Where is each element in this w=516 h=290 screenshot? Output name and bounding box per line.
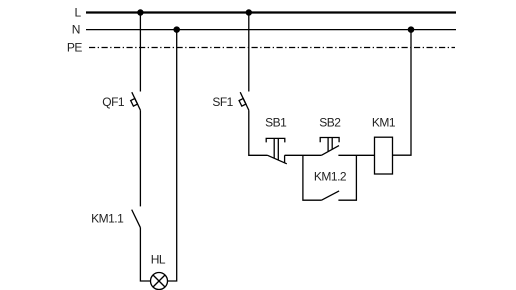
junction dot on L at SF1 branch xyxy=(246,10,251,15)
contact KM1.2 (NO) xyxy=(322,191,340,200)
bus wire L xyxy=(86,11,456,13)
svg-text:KM1.1: KM1.1 xyxy=(91,212,124,226)
wire HL up to N xyxy=(168,30,177,281)
wire L down to SF1 xyxy=(248,13,250,92)
svg-text:HL: HL xyxy=(151,252,166,266)
junction dot on N at HL branch xyxy=(174,27,179,32)
wire SB1 to SB2 xyxy=(285,154,322,156)
lamp HL xyxy=(151,273,168,290)
svg-text:SB1: SB1 xyxy=(265,115,287,129)
wire QF1 to KM1.1 xyxy=(139,110,141,206)
wire SB2 to KM1 coil xyxy=(338,154,374,156)
svg-text:KM1: KM1 xyxy=(372,115,396,129)
pushbutton SB1 (NC) xyxy=(266,138,287,163)
wire L down to QF1 xyxy=(139,13,141,92)
svg-text:PE: PE xyxy=(67,41,83,55)
svg-text:SF1: SF1 xyxy=(212,95,233,109)
wire SF1 down and right to SB1 xyxy=(249,110,268,155)
junction dot on L at QF1 branch xyxy=(138,10,143,15)
breaker QF1 xyxy=(131,92,141,110)
wire KM1.1 down to HL xyxy=(140,228,150,281)
svg-text:QF1: QF1 xyxy=(102,95,125,109)
junction dot on N at KM1 branch xyxy=(408,27,413,32)
bus wire N xyxy=(86,29,456,31)
bus wire PE (dash-dot) xyxy=(89,47,455,49)
svg-text:SB2: SB2 xyxy=(319,115,341,129)
coil KM1 xyxy=(375,137,393,174)
pushbutton SB2 (NO) xyxy=(320,138,339,156)
contact KM1.1 xyxy=(132,210,141,228)
svg-text:L: L xyxy=(75,6,82,20)
wire branch up to node after SB2 xyxy=(338,155,356,200)
breaker SF1 xyxy=(239,92,249,110)
svg-text:KM1.2: KM1.2 xyxy=(314,170,347,184)
svg-text:N: N xyxy=(72,23,80,37)
wire KM1 to N xyxy=(393,30,412,156)
wire branch down from node after SB1 xyxy=(303,155,322,200)
